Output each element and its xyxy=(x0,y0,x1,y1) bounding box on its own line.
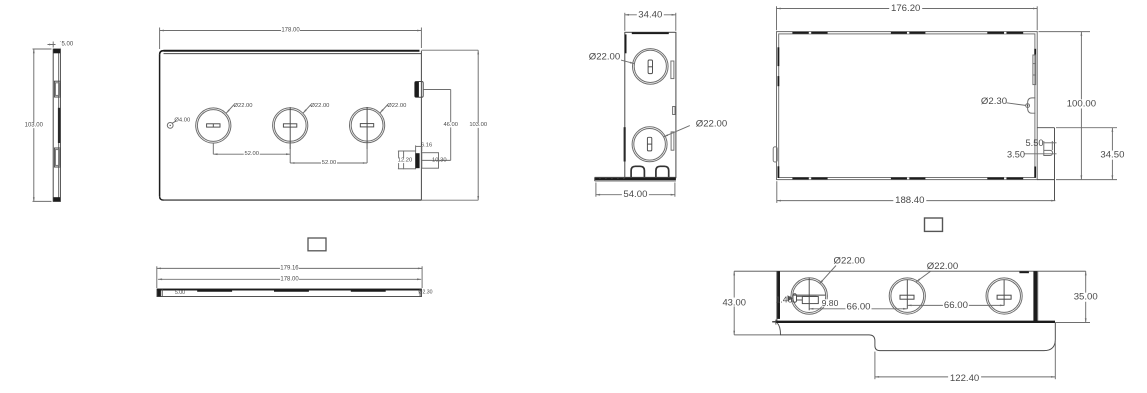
label d22.00 E2 xyxy=(916,271,930,282)
strip thick top edge xyxy=(157,289,422,291)
view C left edge dark upper xyxy=(625,34,627,53)
svg-text:5.50: 5.50 xyxy=(1026,138,1044,148)
view D half-round bump d2.30 xyxy=(1028,98,1036,113)
label d22.00 on B1 xyxy=(226,105,234,114)
view D left edge dark marks xyxy=(777,47,779,66)
svg-text:Ø2.30: Ø2.30 xyxy=(418,289,432,295)
view C left edge dark lower xyxy=(624,127,626,161)
dim 178.00 xyxy=(160,30,422,32)
dim arrow 1.40 xyxy=(788,295,793,301)
view D left bump tab xyxy=(773,147,777,162)
dim 188.40 extensions xyxy=(776,181,778,203)
svg-text:100.00: 100.00 xyxy=(1067,98,1096,109)
svg-text:3.50: 3.50 xyxy=(1007,149,1025,159)
dim 122.40 extensions xyxy=(874,352,876,380)
dim 35 bottom extension xyxy=(1055,322,1090,324)
leader d2.30 xyxy=(1007,103,1026,106)
view E circle1 pin capsule xyxy=(793,294,797,303)
view A feature block lower xyxy=(54,148,60,167)
view C circle 2 xyxy=(632,127,667,162)
dim 54.00 extensions xyxy=(595,183,597,197)
view E right edge thin xyxy=(1037,271,1039,322)
view A: panel edge view outline xyxy=(53,49,60,201)
svg-text:103.00: 103.00 xyxy=(469,122,487,128)
dim 179.16 xyxy=(157,267,422,269)
view A dark bottom cap xyxy=(53,197,60,201)
view A dark middle bar xyxy=(58,108,61,143)
view C foot 2 xyxy=(656,166,669,177)
view C slot 1 xyxy=(648,60,652,74)
svg-text:1.40: 1.40 xyxy=(776,294,793,304)
view C base plate xyxy=(595,176,676,178)
svg-text:6.16: 6.16 xyxy=(421,142,432,148)
dim 188.40 xyxy=(777,200,1056,202)
label d22.00 on B2 xyxy=(303,105,311,114)
svg-text:34.50: 34.50 xyxy=(1100,150,1124,161)
step slot xyxy=(1044,150,1053,155)
dim 43.00 xyxy=(733,271,735,335)
strip text 5.00 xyxy=(174,291,186,295)
label d22.00 on B3 xyxy=(380,105,388,113)
view B: panel front outline xyxy=(164,50,420,52)
svg-text:10.30: 10.30 xyxy=(432,158,447,164)
upper right tab xyxy=(415,82,423,98)
dim 35.00 xyxy=(1085,271,1087,322)
view D inner rect xyxy=(779,34,1035,178)
view D right edge slot tab xyxy=(1033,55,1036,85)
dim 34.50 xyxy=(1111,128,1113,180)
dim 5.50 xyxy=(1043,141,1045,150)
view D bottom hidden dashes xyxy=(792,177,827,179)
label d22.00 view C lower xyxy=(664,126,690,137)
svg-text:Ø22.00: Ø22.00 xyxy=(310,103,329,109)
svg-text:54.00: 54.00 xyxy=(623,189,647,200)
svg-text:66.00: 66.00 xyxy=(944,300,968,311)
dim 54.00 xyxy=(596,194,675,196)
dim 10.30 xyxy=(422,159,451,161)
view E bottom thick line xyxy=(775,321,1055,323)
dim 34.40 extensions xyxy=(624,13,626,31)
svg-text:5.00: 5.00 xyxy=(62,42,74,48)
view E top edge (with extensions both sides) xyxy=(734,270,1085,272)
view E circle 1 xyxy=(791,278,827,314)
label d22.00 view C upper xyxy=(619,60,634,64)
svg-text:Ø22.00: Ø22.00 xyxy=(233,103,252,109)
dim 103.00 vertical line and text xyxy=(33,49,35,201)
svg-text:188.40: 188.40 xyxy=(895,195,924,206)
view E circle 3 xyxy=(986,278,1022,314)
view A inner face line xyxy=(58,50,60,201)
dim 100.00 extensions xyxy=(1039,31,1091,33)
dim 3.50 xyxy=(1025,153,1057,155)
dim 52.00 first: drops and line xyxy=(212,143,214,154)
view E circle 2 xyxy=(889,278,925,314)
view C outline xyxy=(625,32,676,177)
dim 178.00 extensions xyxy=(159,28,161,50)
view C top dark segment xyxy=(632,32,669,34)
view E circle 2 centerline xyxy=(906,280,908,309)
svg-text:Ø22.00: Ø22.00 xyxy=(696,119,727,130)
strip outline xyxy=(157,289,422,297)
lower right tab: left box xyxy=(404,151,416,169)
hole circle B3 xyxy=(350,108,385,143)
svg-text:Ø22.00: Ø22.00 xyxy=(834,256,865,267)
view C right edge tab 2 xyxy=(671,132,674,150)
dim 66.00 second xyxy=(907,304,1004,306)
view E circle 2 slot xyxy=(900,295,914,299)
dim 46.00 lines xyxy=(423,89,451,91)
dim 179.16 extensions xyxy=(156,266,158,288)
view E left thick bar xyxy=(777,271,780,319)
svg-text:103.00: 103.00 xyxy=(25,122,44,128)
svg-text:12.20: 12.20 xyxy=(398,158,413,164)
svg-text:9.80: 9.80 xyxy=(822,298,839,308)
view C foot 1 xyxy=(631,166,644,177)
small hole d4 xyxy=(167,123,173,129)
lower right tab dark bar xyxy=(415,153,419,168)
dim 43 bottom extension xyxy=(734,334,780,336)
svg-text:Ø4.00: Ø4.00 xyxy=(174,117,190,123)
view B inner top line xyxy=(164,53,422,55)
svg-text:Ø22.00: Ø22.00 xyxy=(589,51,620,62)
dim 178.00 lower xyxy=(158,278,421,280)
view C base hatch ticks xyxy=(600,177,602,178)
view D step outline xyxy=(1037,127,1054,129)
svg-text:46.00: 46.00 xyxy=(443,122,458,128)
svg-text:34.40: 34.40 xyxy=(638,9,662,20)
dim 176.20 xyxy=(777,8,1038,10)
lower right tab: right box xyxy=(422,153,439,169)
dim 34.40 xyxy=(625,14,676,16)
strip left end block xyxy=(157,289,161,296)
svg-text:Ø22.00: Ø22.00 xyxy=(387,103,406,109)
dim 12.20 xyxy=(398,150,404,152)
svg-text:122.40: 122.40 xyxy=(950,373,979,384)
dim 103.00 extension lines xyxy=(33,48,52,50)
svg-text:52.00: 52.00 xyxy=(244,151,259,157)
svg-text:Ø22.00: Ø22.00 xyxy=(927,261,958,272)
svg-text:43.00: 43.00 xyxy=(722,297,745,308)
svg-text:Ø2.30: Ø2.30 xyxy=(981,96,1007,107)
slot in B2 xyxy=(283,124,296,127)
view E lower profile xyxy=(777,323,1055,351)
svg-text:178.00: 178.00 xyxy=(280,276,299,282)
centerline through B3 xyxy=(366,107,368,149)
hole circle B1 xyxy=(196,108,231,143)
dim 6.16 bracket xyxy=(415,145,417,151)
svg-text:178.00: 178.00 xyxy=(281,28,300,34)
small circle of d2.30 xyxy=(1026,104,1030,108)
view D top hidden dashes xyxy=(792,32,827,34)
view A feature block upper xyxy=(54,81,60,97)
centerline through B2 xyxy=(289,107,291,149)
small detail rectangle (right drawing) xyxy=(925,218,943,231)
svg-text:66.00: 66.00 xyxy=(846,302,870,313)
slot in B3 xyxy=(360,124,373,127)
dim 5.00 extension lines xyxy=(52,42,54,48)
strip hidden dash group 3 xyxy=(351,290,386,292)
strip hidden dash group 2 xyxy=(274,290,309,292)
strip right end lines xyxy=(419,289,421,296)
view E circle1 slot lines xyxy=(797,295,817,297)
view E left edge thin xyxy=(776,271,778,322)
dim 103.00 right vertical xyxy=(477,50,479,200)
svg-text:35.00: 35.00 xyxy=(1074,292,1098,303)
view E circle 3 centerline xyxy=(1003,280,1005,306)
text 9.80 xyxy=(822,299,839,306)
dim 100.00 xyxy=(1080,32,1082,180)
view E right thick bar xyxy=(1033,271,1037,321)
hole circle B2 xyxy=(273,108,308,143)
slot in B1 xyxy=(207,124,220,127)
view C slot 2 xyxy=(647,137,651,151)
svg-text:176.20: 176.20 xyxy=(891,3,920,14)
dim 176.20 extensions xyxy=(776,6,778,30)
view A dark top cap xyxy=(53,49,60,53)
svg-text:52.00: 52.00 xyxy=(322,160,337,166)
dim 66.00 first xyxy=(809,308,907,310)
small detail rectangle (left drawing) xyxy=(308,238,326,251)
dim 52.00 second xyxy=(366,143,368,163)
view E circle 3 slot xyxy=(997,295,1011,299)
view C circle 1 xyxy=(633,49,669,85)
dim 122.40 xyxy=(875,376,1055,378)
view E circle 1 centerlines xyxy=(808,278,810,310)
svg-text:179.16: 179.16 xyxy=(280,265,299,271)
leader d4.00 xyxy=(172,121,176,123)
view C right edge tab 1 xyxy=(671,61,674,79)
view E bottom-left cross mark xyxy=(772,321,779,323)
view D right edge dark marks xyxy=(1034,49,1036,55)
label d22.00 E1 xyxy=(820,266,836,284)
view E right top dash xyxy=(1019,271,1029,273)
strip hidden dash group 1 xyxy=(197,290,232,292)
dim 103.00 right: extensions xyxy=(421,49,478,51)
view D outer rect xyxy=(777,32,1038,180)
dim 34.50 extensions xyxy=(1056,127,1117,129)
svg-text:5.00: 5.00 xyxy=(175,290,185,296)
view C right edge small mark xyxy=(673,107,675,115)
dim 5.00 line and text xyxy=(48,44,67,46)
